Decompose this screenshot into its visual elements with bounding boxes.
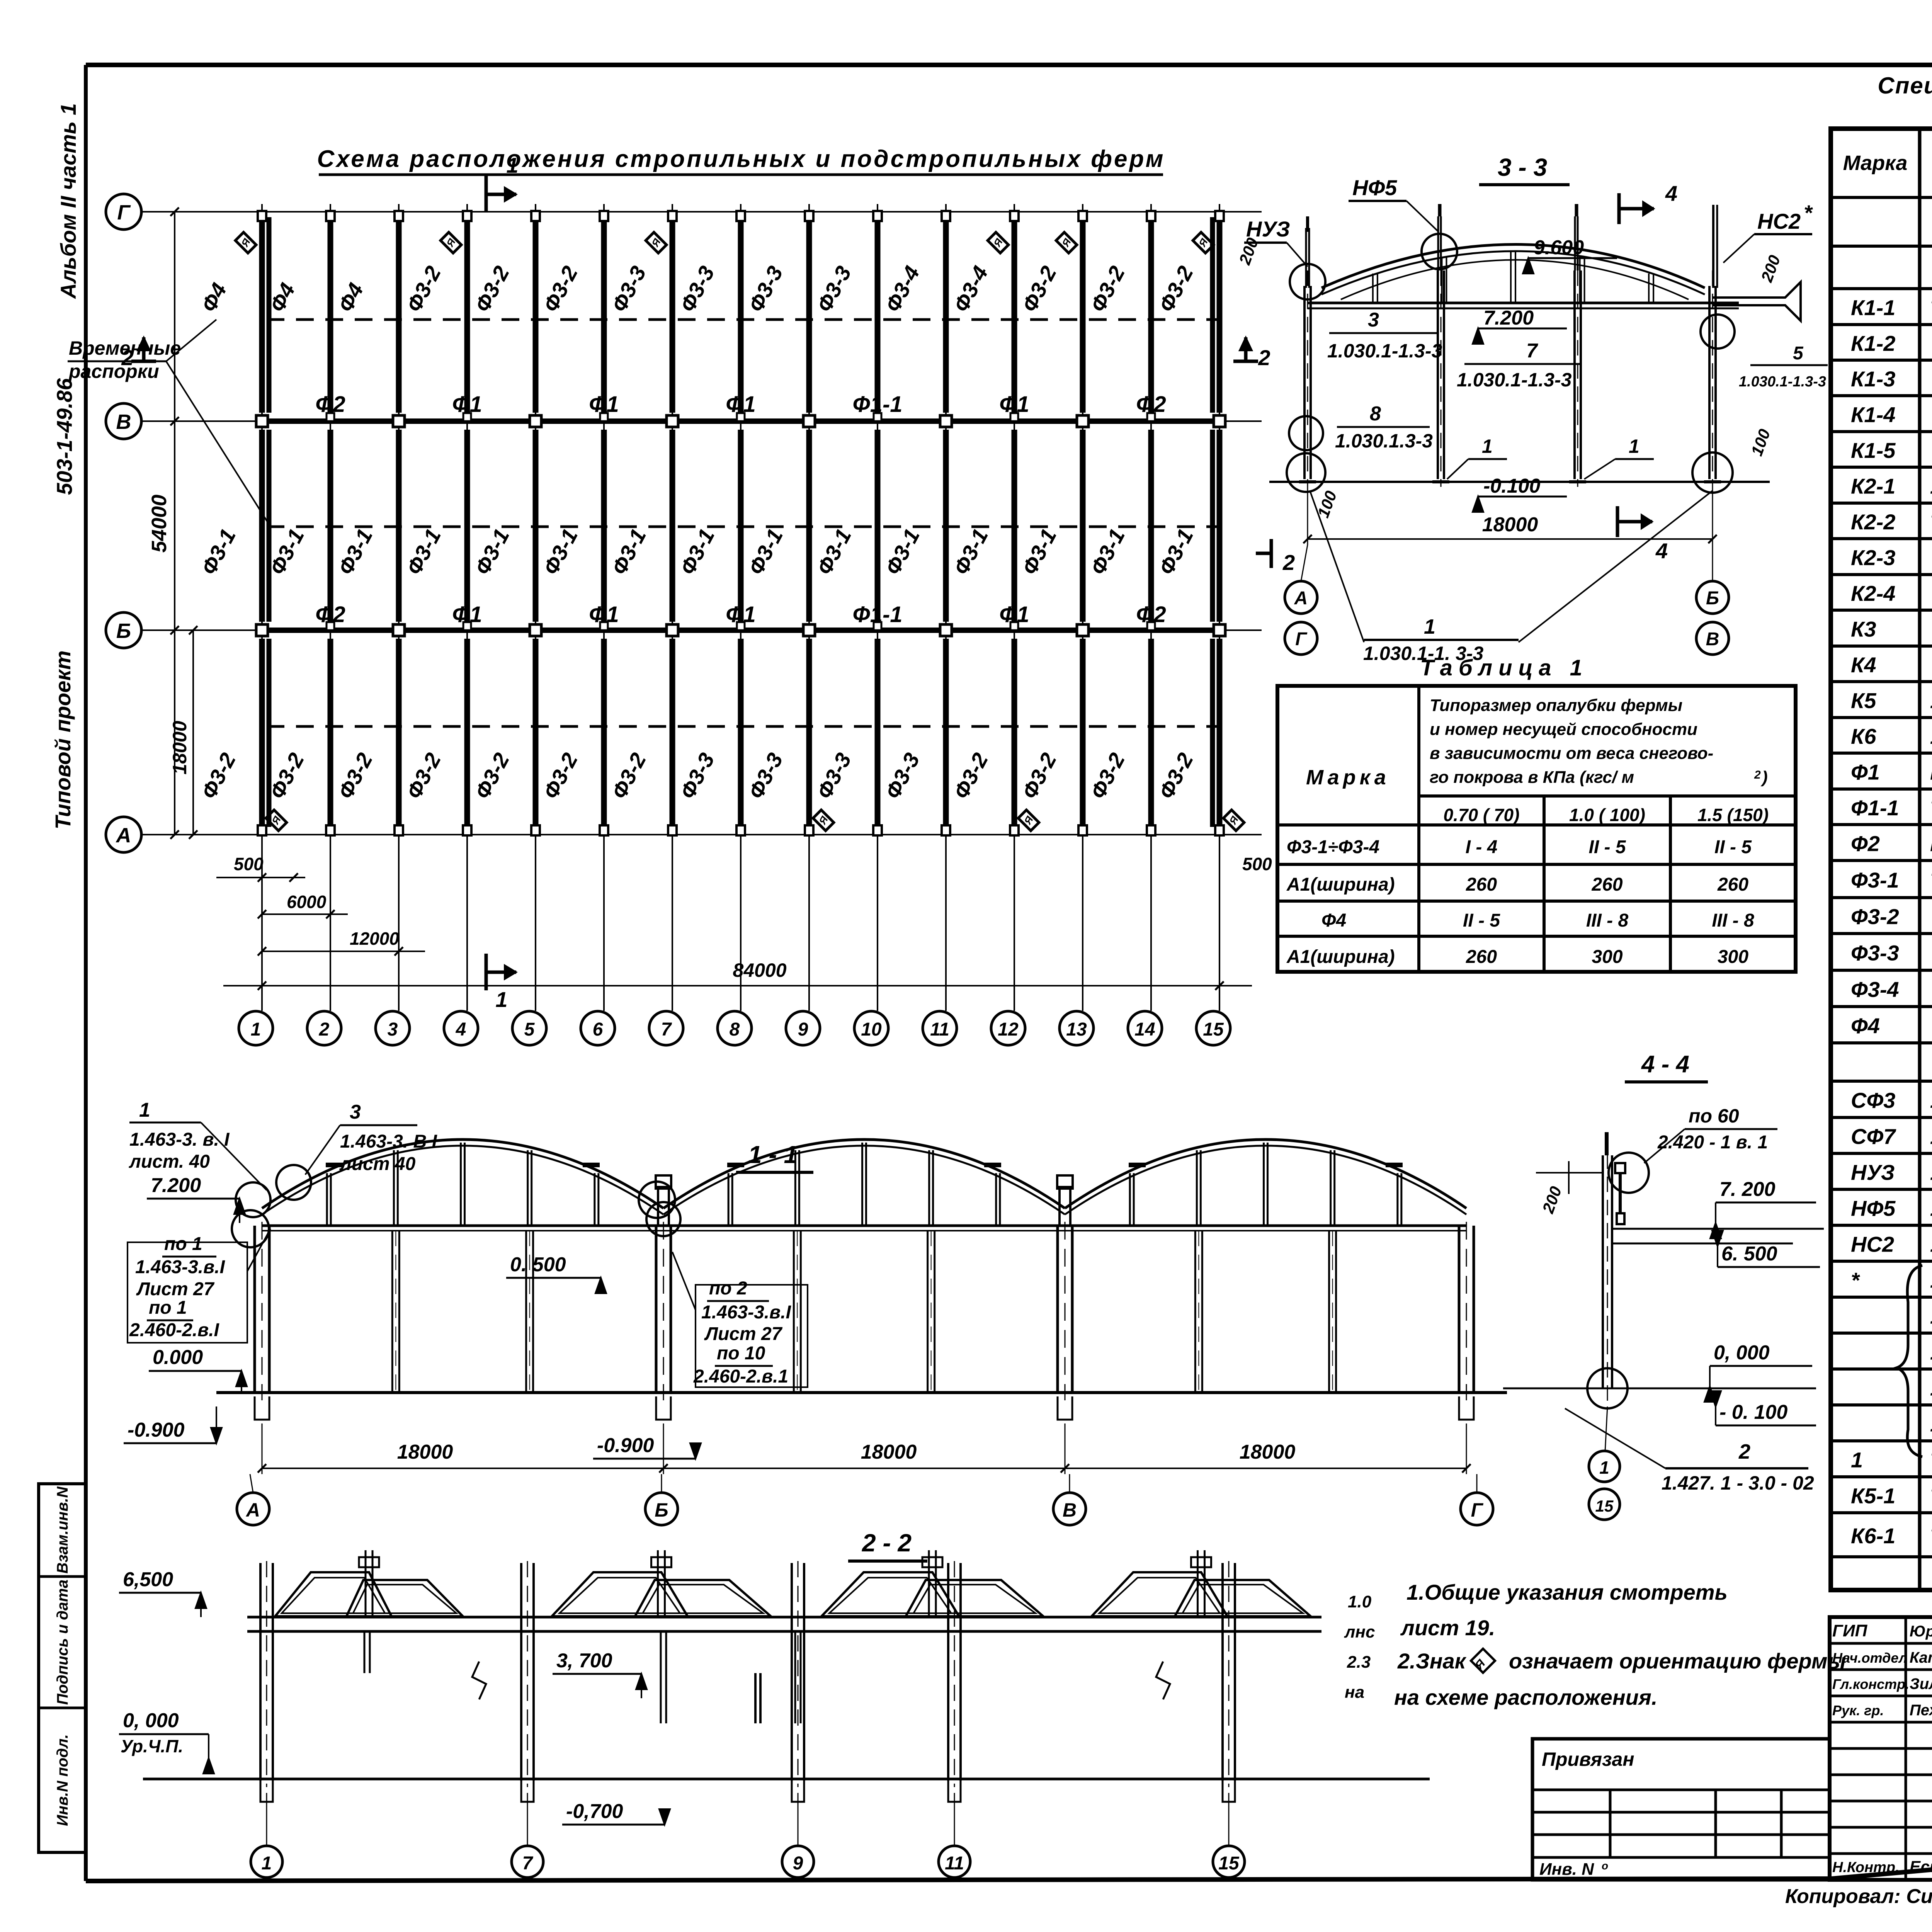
- svg-text:Ф3-2: Ф3-2: [1154, 262, 1198, 316]
- svg-text:0.000: 0.000: [153, 1346, 203, 1369]
- svg-text:го покрова в КПа (кгс/ м: го покрова в КПа (кгс/ м: [1430, 768, 1634, 787]
- svg-text:Пехамева: Пехамева: [1910, 1702, 1932, 1719]
- svg-text:5: 5: [1793, 343, 1804, 364]
- svg-text:Ф3-1: Ф3-1: [1851, 868, 1899, 892]
- svg-text:1.463-3 вып.I лист 36: 1.463-3 вып.I лист 36: [1930, 1305, 1932, 1328]
- svg-text:1: 1: [1629, 435, 1639, 457]
- svg-text:К1-2: К1-2: [1851, 331, 1895, 355]
- svg-text:лист 19.: лист 19.: [1400, 1616, 1495, 1640]
- svg-text:1: 1: [251, 1019, 261, 1040]
- svg-text:II - 5: II - 5: [1463, 910, 1500, 931]
- svg-text:НС2: НС2: [1851, 1232, 1894, 1257]
- svg-text:К5: К5: [1851, 689, 1876, 713]
- svg-text:1.030.1-1.4-2: 1.030.1-1.4-2: [1930, 1126, 1932, 1149]
- svg-text:на схеме расположения.: на схеме расположения.: [1394, 1685, 1657, 1709]
- svg-text:Ф3-2: Ф3-2: [1017, 262, 1061, 316]
- svg-text:1.030.1-1.3-3: 1.030.1-1.3-3: [1739, 374, 1826, 390]
- svg-text:-0.100: -0.100: [1483, 475, 1541, 497]
- svg-text:Таблица 1: Таблица 1: [1420, 655, 1588, 680]
- svg-text:Подпись и дата: Подпись и дата: [54, 1580, 71, 1705]
- svg-text:Ф1: Ф1: [999, 392, 1029, 417]
- svg-text:260: 260: [1591, 874, 1622, 895]
- svg-text:Ф3-2: Ф3-2: [538, 262, 582, 316]
- svg-text:0.70 ( 70): 0.70 ( 70): [1444, 805, 1520, 825]
- svg-text:К2-2: К2-2: [1851, 510, 1895, 534]
- svg-text:4: 4: [456, 1019, 466, 1040]
- svg-text:Ф3-2: Ф3-2: [1017, 749, 1061, 803]
- svg-text:1: 1: [495, 987, 507, 1012]
- svg-text:1: 1: [1599, 1458, 1609, 1478]
- svg-text:Ф3-1: Ф3-1: [1085, 525, 1129, 579]
- svg-text:2.420 - 1 в. 1: 2.420 - 1 в. 1: [1657, 1132, 1768, 1153]
- svg-text:84000: 84000: [733, 959, 786, 981]
- svg-text:Ф3-1: Ф3-1: [607, 525, 651, 579]
- svg-text:-0,700: -0,700: [566, 1800, 623, 1823]
- svg-text:9.600: 9.600: [1534, 236, 1584, 259]
- svg-text:К6-1: К6-1: [1851, 1524, 1895, 1548]
- svg-text:Б: Б: [1706, 588, 1719, 609]
- svg-text:Ф4: Ф4: [333, 279, 368, 316]
- svg-text:200: 200: [1539, 1184, 1565, 1216]
- svg-text:Ф4: Ф4: [1321, 910, 1346, 931]
- svg-text:Ф3-1: Ф3-1: [470, 525, 514, 579]
- svg-text:100: 100: [1314, 488, 1340, 520]
- svg-text:Инв.N подл.: Инв.N подл.: [54, 1734, 71, 1826]
- svg-text:Ф3-3: Ф3-3: [812, 749, 856, 803]
- svg-text:3: 3: [350, 1101, 361, 1123]
- svg-text:Ф3-2: Ф3-2: [470, 262, 514, 316]
- svg-text:Ф3-1: Ф3-1: [949, 525, 993, 579]
- svg-text:7. 200: 7. 200: [1719, 1178, 1776, 1201]
- svg-text:Ф1-1: Ф1-1: [1851, 796, 1899, 820]
- svg-text:18000: 18000: [861, 1441, 917, 1463]
- svg-text:лнс: лнс: [1344, 1622, 1375, 1641]
- svg-text:ТП-: ТП-: [1930, 511, 1932, 534]
- svg-text:НУЗ: НУЗ: [1851, 1160, 1895, 1185]
- svg-text:7: 7: [661, 1019, 672, 1040]
- svg-text:3: 3: [388, 1019, 398, 1040]
- svg-text:Юрин: Юрин: [1910, 1623, 1932, 1640]
- svg-text:Ф3-2: Ф3-2: [196, 749, 240, 803]
- svg-text:2.Знак: 2.Знак: [1397, 1649, 1467, 1673]
- svg-text:0, 000: 0, 000: [123, 1709, 179, 1732]
- svg-text:Ф3-4: Ф3-4: [880, 262, 924, 316]
- svg-text:1.030.1.3-3: 1.030.1.3-3: [1335, 430, 1433, 452]
- svg-text:- 0. 100: - 0. 100: [1719, 1401, 1787, 1423]
- svg-text:4 - 4: 4 - 4: [1641, 1051, 1689, 1078]
- svg-text:Ф3-3: Ф3-3: [607, 262, 651, 316]
- svg-text:Ф2: Ф2: [1851, 832, 1880, 856]
- svg-text:2.3: 2.3: [1347, 1653, 1371, 1672]
- svg-text:Ф1: Ф1: [726, 602, 756, 627]
- svg-text:Ф3-2: Ф3-2: [1851, 905, 1899, 929]
- svg-text:*: *: [1851, 1268, 1860, 1293]
- svg-text:500: 500: [234, 854, 264, 874]
- svg-text:2: 2: [1754, 769, 1761, 781]
- svg-text:Ф1-1: Ф1-1: [852, 392, 902, 417]
- svg-text:III - 8: III - 8: [1586, 910, 1629, 931]
- svg-text:Лист 27: Лист 27: [136, 1279, 215, 1299]
- svg-text:6000: 6000: [287, 892, 327, 912]
- svg-text:Ф4: Ф4: [1851, 1014, 1880, 1038]
- svg-text:ГИП: ГИП: [1832, 1621, 1868, 1640]
- svg-text:): ): [1760, 768, 1768, 787]
- svg-text:СФ7: СФ7: [1851, 1124, 1896, 1149]
- svg-text:Ф1: Ф1: [452, 392, 482, 417]
- svg-text:Ф3-3: Ф3-3: [675, 262, 719, 316]
- svg-text:К5-1: К5-1: [1851, 1484, 1895, 1508]
- svg-text:ТП: ТП: [1930, 869, 1932, 892]
- svg-text:200: 200: [1235, 235, 1262, 267]
- svg-text:Копировал: Сидоровл: Копировал: Сидоровл: [1785, 1885, 1932, 1908]
- svg-text:Схема расположения стропильных: Схема расположения стропильных и подстро…: [317, 146, 1165, 172]
- svg-text:Ф3-3: Ф3-3: [812, 262, 856, 316]
- svg-text:К4: К4: [1851, 653, 1876, 677]
- svg-text:1.431-20 вып.5: 1.431-20 вып.5: [1930, 690, 1932, 713]
- svg-text:ТП: ТП: [1930, 1449, 1932, 1472]
- svg-text:1.030.1-1.4-1: 1.030.1-1.4-1: [1930, 1413, 1932, 1436]
- svg-text:Ф3-1: Ф3-1: [675, 525, 719, 579]
- svg-text:1.400 - 7: 1.400 - 7: [1930, 1377, 1932, 1400]
- svg-text:К2-1: К2-1: [1851, 474, 1895, 498]
- svg-text:на: на: [1345, 1683, 1364, 1702]
- svg-text:1.463-3. В I: 1.463-3. В I: [340, 1131, 437, 1152]
- svg-text:по 60: по 60: [1689, 1105, 1739, 1127]
- svg-text:Спецификация к схемам распол: Спецификация к схемам расположения элеме…: [1878, 73, 1932, 99]
- svg-text:7: 7: [1526, 340, 1538, 362]
- svg-text:18000: 18000: [1482, 514, 1538, 536]
- svg-text:по 10: по 10: [717, 1343, 765, 1364]
- svg-text:9: 9: [793, 1853, 803, 1874]
- svg-text:7.200: 7.200: [151, 1174, 201, 1197]
- svg-text:II - 5: II - 5: [1588, 837, 1626, 857]
- svg-text:Ф1-1: Ф1-1: [852, 602, 902, 627]
- svg-text:3: 3: [1368, 309, 1379, 331]
- svg-text:Привязан: Привязан: [1542, 1748, 1634, 1770]
- svg-text:1.030.1-1.3-3: 1.030.1-1.3-3: [1457, 369, 1572, 391]
- svg-text:2: 2: [1738, 1440, 1750, 1463]
- svg-text:3 - 3: 3 - 3: [1498, 153, 1547, 181]
- svg-text:Катков: Катков: [1910, 1649, 1932, 1666]
- svg-text:1: 1: [1851, 1448, 1863, 1472]
- svg-text:15: 15: [1595, 1497, 1614, 1515]
- svg-text:Ф3-4: Ф3-4: [949, 262, 993, 316]
- svg-text:Ф3-2: Ф3-2: [538, 749, 582, 803]
- svg-text:Марка: Марка: [1306, 766, 1390, 789]
- svg-text:4: 4: [1655, 539, 1668, 563]
- svg-text:Ф3-2: Ф3-2: [1085, 749, 1129, 803]
- svg-text:10: 10: [861, 1019, 882, 1040]
- svg-text:Ф2: Ф2: [315, 392, 345, 417]
- svg-text:I - 4: I - 4: [1466, 837, 1498, 857]
- svg-text:К1-4: К1-4: [1851, 403, 1895, 427]
- svg-text:14: 14: [1134, 1019, 1155, 1040]
- svg-text:0, 000: 0, 000: [1714, 1342, 1770, 1364]
- svg-text:1.400 - 7: 1.400 - 7: [1930, 1341, 1932, 1364]
- svg-text:и номер несущей способности: и номер несущей способности: [1430, 720, 1697, 739]
- svg-text:Н.Контр.: Н.Контр.: [1832, 1859, 1900, 1876]
- svg-text:8: 8: [730, 1019, 740, 1040]
- svg-text:7: 7: [522, 1853, 534, 1874]
- svg-text:по 2: по 2: [709, 1278, 747, 1299]
- svg-text:2: 2: [1282, 550, 1295, 575]
- svg-text:11: 11: [945, 1853, 964, 1874]
- svg-text:Нач.отдел: Нач.отдел: [1832, 1650, 1907, 1666]
- svg-text:распорки: распорки: [68, 361, 159, 382]
- svg-text:1: 1: [139, 1099, 150, 1121]
- svg-text:8: 8: [1370, 403, 1381, 425]
- svg-text:Ф3-2: Ф3-2: [1154, 749, 1198, 803]
- svg-text:Ф3-1: Ф3-1: [880, 525, 924, 579]
- svg-text:300: 300: [1718, 947, 1748, 967]
- svg-text:Типовой проект: Типовой проект: [51, 650, 75, 829]
- svg-text:*: *: [1804, 201, 1813, 225]
- svg-text:А1(ширина): А1(ширина): [1286, 874, 1395, 895]
- svg-text:Ф1: Ф1: [726, 392, 756, 417]
- svg-text:Ф3-1: Ф3-1: [196, 525, 240, 579]
- svg-text:лист 40: лист 40: [339, 1154, 416, 1174]
- svg-text:по 1: по 1: [164, 1234, 202, 1254]
- svg-text:НФ5: НФ5: [1851, 1196, 1896, 1221]
- svg-text:К2-3: К2-3: [1851, 546, 1895, 570]
- svg-text:1: 1: [506, 153, 518, 177]
- svg-text:1.427. 1 - 3.0 - 02: 1.427. 1 - 3.0 - 02: [1662, 1472, 1814, 1494]
- svg-text:12: 12: [998, 1019, 1019, 1040]
- svg-text:Ф3-1: Ф3-1: [812, 525, 856, 579]
- svg-text:2.460-2.в.1: 2.460-2.в.1: [693, 1366, 788, 1387]
- svg-text:11: 11: [930, 1019, 949, 1040]
- svg-text:Ф3-1÷Ф3-4: Ф3-1÷Ф3-4: [1287, 837, 1379, 857]
- svg-text:в зависимости от веса снегово-: в зависимости от веса снегово-: [1430, 744, 1713, 763]
- svg-text:1: 1: [1424, 615, 1435, 638]
- svg-text:300: 300: [1592, 947, 1622, 967]
- svg-text:В: В: [1706, 629, 1719, 650]
- svg-text:Зильбертов: Зильбертов: [1910, 1675, 1932, 1692]
- svg-text:6. 500: 6. 500: [1721, 1243, 1777, 1265]
- svg-text:В: В: [116, 410, 131, 434]
- svg-text:Ф3-2: Ф3-2: [1085, 262, 1129, 316]
- svg-text:К1-1: К1-1: [1851, 296, 1895, 320]
- svg-text:Рук. гр.: Рук. гр.: [1832, 1702, 1884, 1718]
- svg-text:Ф3-3: Ф3-3: [675, 749, 719, 803]
- svg-text:500: 500: [1242, 854, 1272, 874]
- svg-text:ТП: ТП: [1930, 1525, 1932, 1548]
- svg-text:6,500: 6,500: [123, 1568, 173, 1591]
- svg-text:5: 5: [524, 1019, 535, 1040]
- svg-text:ТП-: ТП-: [1930, 297, 1932, 320]
- svg-text:Ф1: Ф1: [589, 602, 619, 627]
- svg-text:100: 100: [1747, 427, 1774, 458]
- svg-text:Ф3-2: Ф3-2: [607, 749, 651, 803]
- svg-text:Ф3-1: Ф3-1: [743, 525, 787, 579]
- svg-text:СФ3: СФ3: [1851, 1088, 1895, 1112]
- svg-text:12000: 12000: [350, 929, 399, 949]
- svg-text:1.0 ( 100): 1.0 ( 100): [1569, 805, 1645, 825]
- svg-text:2: 2: [121, 345, 133, 370]
- svg-text:о: о: [1602, 1860, 1608, 1872]
- svg-text:-0.900: -0.900: [597, 1434, 654, 1457]
- svg-text:Ф3-1: Ф3-1: [538, 525, 582, 579]
- svg-text:2.460-2.в.I: 2.460-2.в.I: [129, 1320, 219, 1340]
- svg-text:по 1: по 1: [149, 1298, 187, 1318]
- svg-text:Ф3-1: Ф3-1: [1154, 525, 1198, 579]
- svg-text:Ф3-2: Ф3-2: [333, 749, 377, 803]
- svg-text:Ф3-1: Ф3-1: [333, 525, 377, 579]
- svg-text:1.Общие указания смотреть: 1.Общие указания смотреть: [1406, 1580, 1728, 1604]
- svg-text:К3: К3: [1851, 617, 1876, 641]
- svg-text:1.5 (150): 1.5 (150): [1697, 805, 1769, 825]
- svg-text:III - 8: III - 8: [1712, 910, 1754, 931]
- svg-text:Г: Г: [117, 201, 131, 224]
- svg-text:18000: 18000: [1240, 1441, 1296, 1463]
- svg-text:НУЗ: НУЗ: [1246, 217, 1290, 241]
- svg-text:Ф3-2: Ф3-2: [470, 749, 514, 803]
- svg-text:1.030.1-1.3-3: 1.030.1-1.3-3: [1327, 340, 1442, 362]
- svg-text:Ф3-4: Ф3-4: [1851, 977, 1899, 1002]
- svg-text:Ф2: Ф2: [315, 602, 345, 627]
- svg-text:Ф3-3: Ф3-3: [1851, 941, 1899, 965]
- svg-text:ТП: ТП: [1930, 797, 1932, 820]
- svg-text:означает ориентацию фермы: означает ориентацию фермы: [1509, 1649, 1846, 1673]
- svg-text:1.030.1- 1.4-1: 1.030.1- 1.4-1: [1930, 1197, 1932, 1221]
- svg-text:К2-4: К2-4: [1851, 581, 1895, 605]
- svg-text:1.463-3.в.I: 1.463-3.в.I: [701, 1302, 791, 1323]
- svg-text:Б: Б: [655, 1499, 668, 1521]
- svg-text:1.030.1-1.4-2: 1.030.1-1.4-2: [1930, 1089, 1932, 1112]
- svg-text:Ф3-1: Ф3-1: [401, 525, 446, 579]
- svg-text:2 - 2: 2 - 2: [862, 1529, 912, 1557]
- svg-text:Ф1: Ф1: [452, 602, 482, 627]
- svg-text:ТП: ТП: [1930, 1485, 1932, 1508]
- svg-text:1.030.1-1.4-1: 1.030.1-1.4-1: [1930, 1233, 1932, 1257]
- svg-text:А1(ширина): А1(ширина): [1286, 947, 1395, 967]
- svg-text:НФ5: НФ5: [1352, 175, 1397, 200]
- svg-text:А: А: [116, 824, 131, 847]
- svg-text:503-1-49.86: 503-1-49.86: [52, 378, 77, 495]
- svg-text:Г: Г: [1295, 629, 1308, 650]
- svg-text:260: 260: [1466, 874, 1497, 895]
- svg-text:Ф3-3: Ф3-3: [743, 262, 787, 316]
- svg-text:1.403-3 Вып.I лист 42: 1.403-3 Вып.I лист 42: [1930, 1269, 1932, 1293]
- svg-text:15: 15: [1203, 1019, 1224, 1040]
- svg-text:К6: К6: [1851, 724, 1876, 748]
- svg-text:2: 2: [319, 1019, 330, 1040]
- svg-text:В: В: [1063, 1499, 1077, 1521]
- svg-text:1.0: 1.0: [1348, 1592, 1372, 1611]
- svg-text:НС2: НС2: [1757, 209, 1801, 233]
- svg-text:1.463-3.в.I: 1.463-3.в.I: [135, 1257, 225, 1277]
- svg-text:1.431-20 вып.5: 1.431-20 вып.5: [1930, 725, 1932, 748]
- svg-text:1.423-3, вып. 1: 1.423-3, вып. 1: [1930, 475, 1932, 498]
- svg-text:9: 9: [798, 1019, 808, 1040]
- svg-text:Альбом II часть 1: Альбом II часть 1: [56, 103, 80, 299]
- svg-text:Типоразмер опалубки фермы: Типоразмер опалубки фермы: [1430, 696, 1682, 715]
- svg-text:Ф3-2: Ф3-2: [401, 262, 446, 316]
- svg-text:Ф3-2: Ф3-2: [401, 749, 446, 803]
- svg-text:Ф3-1: Ф3-1: [1017, 525, 1061, 579]
- svg-text:15: 15: [1218, 1853, 1240, 1874]
- svg-text:Ф3-2: Ф3-2: [949, 749, 993, 803]
- svg-text:Ф2: Ф2: [1136, 392, 1166, 417]
- svg-text:II - 5: II - 5: [1714, 837, 1752, 857]
- svg-text:-0.900: -0.900: [128, 1419, 185, 1441]
- svg-text:А: А: [245, 1499, 260, 1521]
- svg-text:Ф1: Ф1: [1851, 760, 1880, 784]
- svg-text:54000: 54000: [148, 495, 171, 553]
- svg-text:Ф3-3: Ф3-3: [743, 749, 787, 803]
- svg-text:200: 200: [1757, 253, 1784, 285]
- svg-text:1.030.1-1.4-1: 1.030.1-1.4-1: [1930, 1162, 1932, 1185]
- svg-text:Лист 27: Лист 27: [704, 1324, 783, 1344]
- svg-text:Марка: Марка: [1843, 151, 1908, 175]
- svg-text:А: А: [1294, 588, 1308, 609]
- svg-text:3, 700: 3, 700: [556, 1650, 612, 1672]
- svg-text:Гл.констр.: Гл.констр.: [1832, 1676, 1909, 1692]
- svg-text:К1-3: К1-3: [1851, 367, 1895, 391]
- svg-text:Ур.Ч.П.: Ур.Ч.П.: [121, 1736, 183, 1756]
- svg-text:Инв. N: Инв. N: [1539, 1860, 1594, 1879]
- svg-text:1: 1: [1482, 435, 1493, 457]
- svg-text:Взам.инв.N: Взам.инв.N: [54, 1486, 71, 1573]
- svg-text:Ф4: Ф4: [196, 279, 231, 316]
- svg-text:4: 4: [1665, 181, 1677, 206]
- svg-text:Ф3-3: Ф3-3: [880, 749, 924, 803]
- svg-text:0. 500: 0. 500: [510, 1253, 566, 1276]
- svg-text:260: 260: [1466, 947, 1497, 967]
- svg-text:18000: 18000: [397, 1441, 453, 1463]
- svg-text:Есина: Есина: [1910, 1857, 1932, 1876]
- svg-text:2: 2: [1258, 345, 1270, 370]
- svg-text:6: 6: [593, 1019, 603, 1040]
- svg-text:Ф2: Ф2: [1136, 602, 1166, 627]
- svg-text:13: 13: [1066, 1019, 1087, 1040]
- svg-text:1.463-3. в. I: 1.463-3. в. I: [129, 1129, 230, 1150]
- svg-text:7.200: 7.200: [1483, 307, 1534, 329]
- svg-text:Ф1: Ф1: [999, 602, 1029, 627]
- svg-text:К1-5: К1-5: [1851, 438, 1896, 463]
- svg-text:Б: Б: [116, 619, 131, 643]
- svg-text:Ф1: Ф1: [589, 392, 619, 417]
- svg-text:лист. 40: лист. 40: [129, 1151, 210, 1172]
- svg-text:260: 260: [1717, 874, 1748, 895]
- svg-text:18000: 18000: [169, 721, 190, 774]
- svg-text:ПК-01-110/81 вып. 1,2: ПК-01-110/81 вып. 1,2: [1930, 833, 1932, 856]
- svg-text:ПК-01-110/81вып. 1,2: ПК-01-110/81вып. 1,2: [1930, 761, 1932, 784]
- svg-text:1: 1: [262, 1853, 272, 1874]
- svg-text:Г: Г: [1471, 1499, 1484, 1521]
